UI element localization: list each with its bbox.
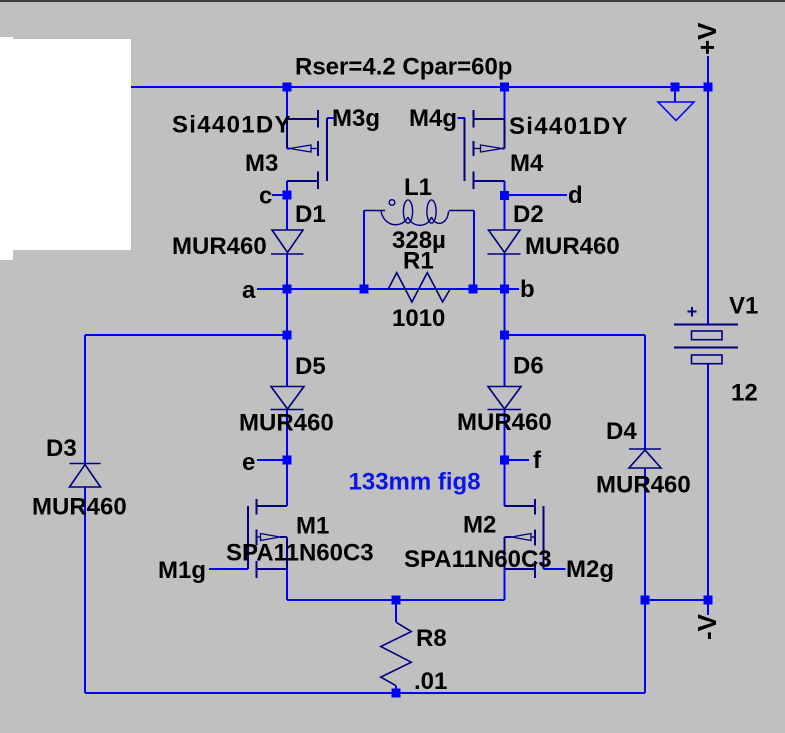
svg-text:D3: D3 (46, 435, 77, 462)
svg-text:MUR460: MUR460 (32, 494, 127, 521)
svg-text:SPA11N60C3: SPA11N60C3 (404, 546, 552, 573)
svg-text:Si4401DY: Si4401DY (172, 112, 292, 139)
svg-text:M3: M3 (245, 150, 278, 177)
svg-text:M4g: M4g (409, 105, 457, 132)
svg-text:1010: 1010 (392, 305, 445, 332)
svg-text:SPA11N60C3: SPA11N60C3 (226, 540, 374, 567)
svg-text:R8: R8 (416, 625, 447, 652)
svg-text:M2: M2 (463, 512, 496, 539)
svg-text:c: c (259, 183, 272, 210)
svg-text:d: d (568, 182, 583, 209)
svg-text:Rser=4.2 Cpar=60p: Rser=4.2 Cpar=60p (295, 54, 512, 81)
svg-text:b: b (520, 276, 535, 303)
svg-text:e: e (242, 449, 255, 476)
svg-text:M3g: M3g (332, 105, 380, 132)
svg-text:D1: D1 (295, 201, 326, 228)
svg-text:.01: .01 (414, 668, 447, 695)
svg-text:Si4401DY: Si4401DY (509, 113, 629, 140)
svg-text:a: a (242, 277, 256, 304)
svg-text:M1g: M1g (158, 557, 206, 584)
svg-text:133mm fig8: 133mm fig8 (349, 469, 481, 496)
svg-text:MUR460: MUR460 (239, 410, 334, 437)
svg-text:D6: D6 (513, 353, 544, 380)
svg-text:MUR460: MUR460 (525, 233, 620, 260)
svg-text:-V: -V (692, 613, 722, 640)
svg-text:D2: D2 (513, 201, 544, 228)
svg-text:R1: R1 (403, 248, 434, 275)
svg-text:12: 12 (731, 380, 758, 407)
svg-text:+V: +V (692, 22, 722, 55)
svg-text:D5: D5 (295, 353, 326, 380)
svg-text:MUR460: MUR460 (596, 472, 691, 499)
svg-text:M2g: M2g (566, 556, 614, 583)
svg-text:L1: L1 (404, 174, 432, 201)
svg-text:f: f (533, 447, 542, 474)
svg-text:M1: M1 (296, 513, 329, 540)
svg-text:V1: V1 (729, 293, 758, 320)
svg-text:D4: D4 (606, 418, 637, 445)
svg-text:MUR460: MUR460 (457, 409, 552, 436)
svg-text:MUR460: MUR460 (172, 233, 267, 260)
svg-text:M4: M4 (510, 150, 544, 177)
